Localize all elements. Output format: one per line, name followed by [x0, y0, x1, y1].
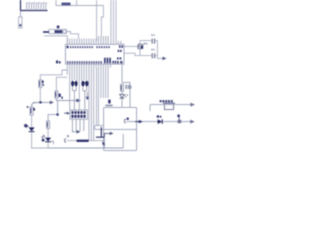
LED D3 — [120, 91, 128, 107]
buzzer LS1 — [163, 103, 175, 109]
wire P1.x to right circuit — [122, 68, 130, 108]
switch S1 box — [49, 29, 66, 33]
IC U1 pin1 dot — [67, 46, 69, 48]
IC U1 bottom label rows — [67, 57, 122, 63]
resistor R3 — [27, 106, 35, 115]
wire R2 bottom net — [56, 98, 80, 100]
wire C1 top — [140, 41, 157, 56]
wire S1 to IC — [44, 32, 79, 44]
IC U1 right-top marks — [118, 45, 123, 52]
LED D1 — [24, 124, 34, 131]
wire XTAL1 — [124, 41, 140, 47]
crystal X1 — [138, 43, 148, 56]
wire J1 to header — [21, 0, 48, 11]
label for LS1 — [160, 100, 173, 102]
wire R2 top — [56, 77, 67, 91]
comb wires from U1 bottom — [67, 68, 108, 141]
connector J1 — [19, 17, 22, 28]
wire R3 to LED D1 — [31, 115, 33, 127]
display driver U2 — [70, 110, 87, 119]
U1 reference label — [56, 60, 61, 63]
diode pair D4 D5 — [71, 81, 78, 110]
net arrow on line B — [135, 120, 143, 124]
net label line lower left — [65, 135, 104, 142]
diode pair D6 D7 — [81, 81, 88, 110]
capacitor C1 — [152, 39, 154, 44]
wire R4 to LED D2 — [47, 128, 49, 137]
wire R1 down — [39, 88, 41, 103]
connector pins above IC right — [99, 36, 109, 41]
arrow under U2 — [72, 129, 80, 134]
IC U1 top pins — [67, 39, 121, 45]
net arrow on R2 line — [76, 99, 81, 103]
wire inner rail — [95, 128, 137, 130]
resistor R4 — [47, 101, 59, 129]
ground arrow right of caps — [163, 57, 167, 61]
wire XTAL2 — [124, 53, 152, 55]
wire VCC rail left — [40, 68, 67, 81]
component on line B right — [177, 115, 181, 124]
net arrow left junction — [32, 101, 54, 107]
label above switch S1 — [57, 26, 60, 29]
pin header P1 pins — [27, 3, 48, 11]
R5 value text — [125, 85, 131, 89]
IC U1 top label row — [70, 46, 110, 48]
buzzer line A — [150, 103, 195, 111]
capacitor C2 — [152, 53, 154, 58]
IC U3 (top, cut off) — [56, 0, 77, 6]
wire comb join into module — [95, 125, 104, 127]
resistor R2 — [55, 91, 63, 99]
label B1 — [105, 100, 112, 107]
module box M1 — [104, 107, 137, 150]
resistor R1 — [39, 80, 44, 88]
wire D2 down — [47, 142, 49, 148]
transistor Q1 — [96, 127, 113, 148]
LED D2 — [42, 135, 54, 144]
wire D1 down — [32, 132, 48, 148]
wire C2 to ground — [155, 56, 163, 59]
down arrow under right diode pair — [86, 92, 90, 100]
wire U3 to bus — [77, 0, 117, 41]
resistor R5 — [121, 84, 124, 91]
diode D8 on line B — [157, 115, 162, 124]
IC U1 bottom pins — [67, 64, 122, 67]
wire emitter rail — [48, 134, 123, 148]
arrow into U2 — [64, 112, 70, 115]
wire line B — [124, 118, 194, 124]
U2 bottom legs — [72, 119, 83, 131]
IC U1 body — [66, 44, 125, 64]
wire stub into S1 — [43, 31, 49, 33]
